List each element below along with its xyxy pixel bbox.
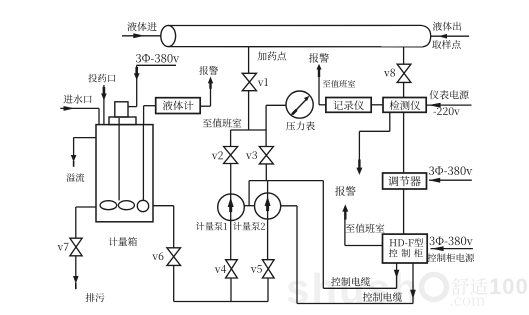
svg-text:100: 100 (489, 274, 529, 299)
